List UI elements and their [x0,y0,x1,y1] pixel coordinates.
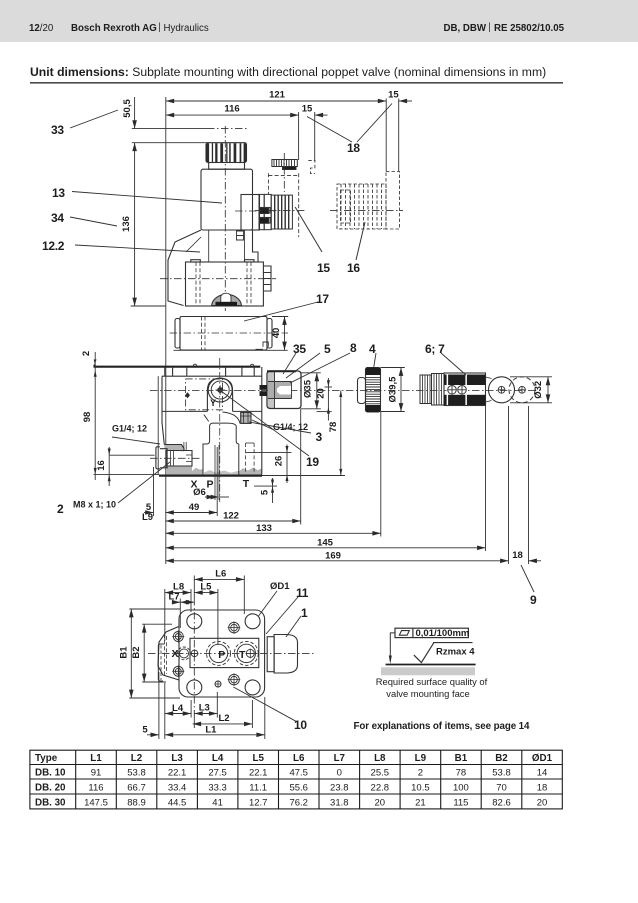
svg-text:B2: B2 [131,646,142,658]
end knurl block [420,375,432,404]
leader item 15 [295,207,322,252]
internal slant line [186,237,201,252]
bolt hole bottom-center [229,674,240,685]
section top cover bold line [94,366,261,368]
svg-text:49: 49 [189,502,200,513]
connector latch top [256,342,269,349]
poppet diamond mark [185,392,190,398]
title rule [30,82,563,84]
svg-text:For explanations of items, see: For explanations of items, see page 14 [354,721,531,732]
phantom knob axis [283,153,285,192]
svg-text:23.8: 23.8 [330,783,349,794]
dimension 50,5 vertical [134,97,136,129]
svg-text:4: 4 [369,342,376,356]
dim 145 [165,547,485,549]
svg-text:33.3: 33.3 [208,783,227,794]
svg-text:1: 1 [301,606,308,620]
second knurl block [432,374,445,406]
small hole right of X [191,650,198,657]
dim 133 [165,532,380,534]
dimension 116 [166,114,299,116]
valve interface plates [259,194,264,229]
knob body [366,368,381,413]
svg-text:L6: L6 [215,568,226,579]
connector top bold edge [267,370,296,372]
svg-text:22.1: 22.1 [249,768,268,779]
svg-text:RE 25802/10.05: RE 25802/10.05 [494,23,565,34]
leader 35 [283,353,296,374]
svg-text:3: 3 [316,430,323,444]
main body outline [179,610,265,697]
svg-text:82.6: 82.6 [492,797,511,808]
svg-text:B1: B1 [118,646,129,659]
svg-text:31.8: 31.8 [330,797,349,808]
svg-text:M8 x 1; 10: M8 x 1; 10 [73,500,116,510]
leader item 34 [70,217,117,226]
leader item 18 right [357,104,392,143]
phantom connector step dashed [308,160,315,173]
svg-text:Ø39,5: Ø39,5 [388,376,399,403]
svg-text:L3: L3 [171,753,183,764]
gray fill under P seat [204,470,239,475]
dimension 5 T-port [272,478,274,503]
dim L4 [165,713,191,715]
coil inner lines [201,317,203,351]
top band housing rects [165,367,254,377]
knurled nut item 15 [271,195,292,229]
port P [207,641,231,665]
svg-text:169: 169 [325,550,341,561]
gray fill bottom strip right of channel [239,468,262,475]
dim B2 [143,624,145,682]
svg-text:22.8: 22.8 [371,783,390,794]
svg-text:15: 15 [317,261,330,275]
leader G1/4 right [252,420,274,430]
cartridge main body [444,373,486,406]
dashed circle [509,377,535,403]
dim L3 [194,713,217,715]
svg-text:133: 133 [256,523,272,534]
phantom solenoid dashed outline [267,173,269,195]
svg-text:0,01/100mm: 0,01/100mm [416,628,470,639]
svg-text:L6: L6 [293,753,305,764]
svg-text:11: 11 [296,586,309,600]
svg-text:145: 145 [317,537,334,548]
dimension D35 [316,373,318,409]
lower block [186,262,264,306]
svg-text:78: 78 [328,422,339,433]
tolerance frame box [395,628,468,637]
svg-text:66.7: 66.7 [127,783,146,794]
svg-text:ØD1: ØD1 [270,581,290,592]
svg-text:Ø6: Ø6 [193,487,206,498]
header bar [0,0,638,42]
dimension D32 [547,377,549,403]
svg-text:Y: Y [210,398,216,408]
svg-text:9: 9 [530,593,537,607]
svg-text:P: P [206,479,213,491]
item 1 projection neck [267,637,274,672]
poppet tabs above cover [193,364,197,366]
valve body flange left outline [168,230,201,306]
ext lines top [164,589,166,641]
svg-text:27.5: 27.5 [208,768,227,779]
Y port boss outline [207,378,232,411]
svg-text:B1: B1 [455,753,468,764]
svg-text:2: 2 [57,502,64,516]
ref line top view bottom y306 [131,305,166,307]
main horizontal axis dash-dot [150,389,537,391]
leader item 9 [521,565,534,592]
svg-text:DB. 30: DB. 30 [35,797,66,808]
svg-text:147.5: 147.5 [84,797,108,808]
svg-text:13: 13 [52,186,65,200]
valve body flange right outline [253,230,259,262]
svg-text:78: 78 [456,768,467,779]
svg-text:2: 2 [418,768,423,779]
bottom view dimensions [129,576,301,740]
svg-text:L5: L5 [252,753,264,764]
svg-text:41: 41 [212,797,223,808]
corner hole top-left [187,614,202,629]
leader item 11 [266,597,298,634]
port T [234,641,258,665]
svg-text:116: 116 [224,104,239,115]
bracket lines body to circles [486,377,492,402]
svg-text:ØD1: ØD1 [532,753,553,764]
leader with arrow to face [390,633,395,661]
knob knurl stripes horizontal [366,377,380,403]
M8 plug inner [171,451,193,467]
svg-text:6; 7: 6; 7 [425,342,445,356]
cartridge body screws [448,386,457,395]
ref line knob raised y128.6 [132,128,207,130]
svg-text:L7: L7 [334,753,346,764]
dim L2 [193,723,253,725]
svg-text:44.5: 44.5 [168,797,187,808]
left extension inner lines [165,634,167,676]
svg-text:26: 26 [274,456,285,467]
coil axis dash-dot [170,332,288,334]
dim 122 [165,520,300,522]
dim L8 [165,592,191,594]
extension line x314.7 [314,112,316,161]
ext lines bottom [158,672,160,739]
roughness check symbol [414,643,434,663]
small knurled knob phantom solenoid [272,160,297,167]
svg-text:33: 33 [51,123,64,137]
svg-text:34: 34 [51,211,64,225]
knurled knob item 33 [206,143,247,163]
svg-text:16: 16 [96,460,107,471]
svg-text:100: 100 [453,783,469,794]
leader item 12.2 [75,245,200,252]
svg-text:5: 5 [260,489,271,495]
Y port circles [208,378,232,402]
svg-text:L8: L8 [374,753,386,764]
nut axis dash-dot [255,210,304,212]
svg-text:Hydraulics: Hydraulics [164,23,209,34]
latch box below connector [237,231,244,240]
left tab [156,447,160,469]
svg-text:35: 35 [293,342,306,356]
svg-text:50,5: 50,5 [122,99,133,118]
dimension 15 top right [399,100,412,102]
svg-text:116: 116 [88,783,103,794]
svg-text:5: 5 [324,342,331,356]
svg-text:53.8: 53.8 [492,768,511,779]
svg-text:115: 115 [453,797,468,808]
svg-text:21: 21 [415,797,426,808]
svg-text:15: 15 [302,104,313,115]
X port small tab [184,442,186,451]
dim 18 right [529,560,542,562]
ground line [386,664,476,666]
leader item 13 [72,192,222,204]
X port outlines [164,445,184,452]
dimension 16 left [108,447,110,486]
svg-text:5: 5 [142,725,148,736]
svg-text:33.4: 33.4 [168,783,187,794]
extension lines [153,467,155,516]
mounting face bold line [159,475,262,477]
svg-text:DB. 10: DB. 10 [35,768,66,779]
corner hole top-right [245,614,260,629]
svg-text:G1/4; 12: G1/4; 12 [273,422,308,432]
extension line left x165 [165,97,167,564]
svg-text:22.1: 22.1 [168,768,187,779]
svg-text:Required surface quality of: Required surface quality of [376,676,488,687]
solenoid body item 13 [201,169,253,230]
dim 5 / L9 and 49 [144,512,154,514]
svg-text:L2: L2 [218,713,229,724]
svg-text:DB. 20: DB. 20 [35,783,66,794]
svg-text:Unit dimensions: Subplate moun: Unit dimensions: Subplate mounting with … [30,65,546,79]
svg-text:L4: L4 [172,703,184,714]
hole dashed lines in block [195,262,197,306]
extension line x386.2 [385,99,387,172]
dimension D39,5 [400,368,402,412]
solenoid connector block [241,195,260,231]
dim L6 [194,578,244,580]
dimension 26 [286,445,288,484]
svg-text:L7: L7 [168,592,179,603]
leader item 33 [70,110,118,128]
leader item 17 [244,302,318,321]
knob collar [358,378,366,404]
corner hole bottom-right [245,680,260,695]
connector axis dash-dot [235,210,276,212]
leader item 10 [233,687,296,721]
svg-text:Type: Type [35,753,58,764]
svg-text:valve mounting face: valve mounting face [386,688,469,699]
svg-text:L1: L1 [90,753,102,764]
dimension 2 left [93,352,311,503]
bolt hole left-top [173,632,183,642]
svg-text:Ø32: Ø32 [533,381,544,399]
svg-text:76.2: 76.2 [289,797,308,808]
svg-text:12.7: 12.7 [249,797,268,808]
leader 8 [290,353,350,383]
svg-text:12.2: 12.2 [42,239,65,253]
dimension D6 [214,445,216,500]
svg-text:P: P [218,649,225,661]
dim B1 [130,609,132,698]
solenoid tube lines [208,230,210,262]
X port axis dash-dot [150,457,200,459]
T channel dashed [245,443,247,472]
svg-text:X: X [171,648,178,660]
ground gray band [381,667,475,675]
svg-text:47.5: 47.5 [289,768,308,779]
svg-text:2: 2 [81,351,92,356]
dimension 20 [327,378,329,421]
svg-text:L4: L4 [212,753,224,764]
svg-text:Bosch Rexroth AG: Bosch Rexroth AG [71,23,157,34]
svg-text:98: 98 [82,412,93,423]
connector pins [260,208,271,214]
body left edge [162,376,164,444]
dimension 78 [340,390,342,475]
svg-text:L9: L9 [415,753,427,764]
leader item 1 [286,616,301,637]
channel throat outline [203,423,239,475]
svg-text:L9: L9 [142,512,153,523]
vertical axis dash-dot [193,598,195,710]
dim L7 [172,601,180,603]
svg-text:G1/4; 12: G1/4; 12 [112,424,147,434]
lower block top tabs [191,260,201,262]
svg-text:91: 91 [91,768,102,779]
svg-text:17: 17 [316,292,329,306]
svg-text:Ø35: Ø35 [303,379,314,398]
flatness parallelogram [399,631,409,636]
leader item 4 [374,353,376,367]
dim L1 [165,734,265,736]
coil bottom extension line [174,349,288,351]
svg-text:40: 40 [271,328,282,339]
semicircle notch [212,294,242,305]
svg-text:L5: L5 [200,582,212,593]
svg-text:L3: L3 [199,702,210,713]
corner hole bottom-left [187,680,202,695]
leader 19 [221,391,309,456]
svg-text:20: 20 [316,388,327,399]
svg-text:70: 70 [496,783,507,794]
svg-text:B2: B2 [495,753,508,764]
bolt hole left-bottom [173,666,183,676]
body top edge [162,375,262,377]
svg-text:15: 15 [388,90,399,101]
extension line x298.6 [298,112,300,160]
connector outer frame [267,371,301,409]
far left tab [158,644,164,681]
body right edge [261,367,263,475]
svg-text:0: 0 [337,768,342,779]
leader 3 [249,422,311,433]
svg-text:14: 14 [537,768,548,779]
svg-text:DB, DBW: DB, DBW [444,23,487,34]
ref line knob top y142.7 [132,142,208,144]
svg-text:53.8: 53.8 [127,768,146,779]
port X [178,647,191,660]
svg-text:55.6: 55.6 [289,783,308,794]
extension line x398.7 [398,99,400,172]
svg-text:25.5: 25.5 [371,768,390,779]
svg-text:121: 121 [269,90,286,101]
left extension lump [158,626,179,680]
dimension 121 [166,100,386,102]
Y bore arc [223,412,241,424]
svg-text:20: 20 [375,797,386,808]
coil body item 17 [180,317,267,351]
svg-text:L1: L1 [205,725,217,736]
right pin block [263,266,271,291]
svg-text:10: 10 [294,718,307,732]
connector inner lines [268,371,292,409]
internal cavity dashed [186,379,223,410]
leader M8 item [118,462,170,503]
horizontal axis dash-dot [148,652,315,654]
svg-text:L2: L2 [131,753,143,764]
svg-text:16: 16 [347,261,360,275]
gray fill X port region [164,445,184,452]
leader G1/4 left [112,437,160,444]
svg-text:10.5: 10.5 [411,783,430,794]
small hole bottom [215,681,221,687]
dim 5 bottom [147,734,159,736]
circle screw marks [498,386,505,393]
svg-text:12/20: 12/20 [29,23,54,34]
item 1 projection body [274,635,297,674]
dashed knurl block item 16 [330,172,403,230]
leader item 16 [356,222,365,260]
body axis dash-dot [160,278,276,280]
svg-text:88.9: 88.9 [127,797,146,808]
leader 5 [286,353,320,378]
svg-text:18: 18 [347,141,360,155]
center axis vertical top view [224,126,226,311]
pins between valve and connector [260,385,268,390]
connector gray body [268,382,292,399]
svg-text:Rzmax 4: Rzmax 4 [436,646,475,657]
dimension 40 [284,317,286,351]
svg-text:8: 8 [350,341,357,355]
chamfer tick [204,415,209,422]
bolt hole top-center [229,622,240,633]
svg-text:122: 122 [223,511,239,522]
svg-text:20: 20 [537,797,548,808]
interface pins black [260,208,269,214]
svg-text:11.1: 11.1 [249,783,267,794]
solid circle [489,377,515,403]
svg-text:18: 18 [512,550,523,561]
leader D1 [259,591,278,616]
dimension 15 middle [315,114,328,116]
svg-text:18: 18 [537,783,548,794]
port field rect [190,638,259,667]
svg-text:T: T [239,649,246,661]
svg-text:19: 19 [306,455,319,469]
gray fill bottom strip left of channel [192,468,203,475]
knob neck [209,163,245,170]
svg-text:136: 136 [121,216,132,232]
vent hex item 19 target [241,413,251,424]
leader item 18 left [307,117,352,143]
svg-text:T: T [243,478,250,490]
leader items 6;7 [441,353,466,375]
knob knurl stripes [206,143,246,162]
